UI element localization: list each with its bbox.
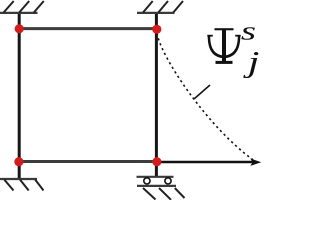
arrow line to the right (157, 161, 257, 163)
label leader tick (194, 85, 210, 99)
node top-left (15, 24, 24, 33)
wire right column (155, 13, 158, 177)
dashed deflection curve (157, 32, 253, 160)
support top-left fixed (0, 1, 44, 13)
support bottom-left fixed (0, 179, 44, 191)
arrowhead (250, 159, 261, 166)
svg-text:s: s (241, 17, 256, 46)
node top-right (152, 25, 161, 34)
node bottom-right (152, 157, 161, 166)
wire top beam (19, 27, 157, 30)
wire left column (18, 13, 21, 179)
node bottom-left (14, 157, 23, 166)
support bottom-right roller (137, 177, 185, 200)
wire bottom beam (19, 160, 157, 163)
label Psi glyph (207, 28, 240, 64)
support top-right fixed (137, 1, 183, 13)
